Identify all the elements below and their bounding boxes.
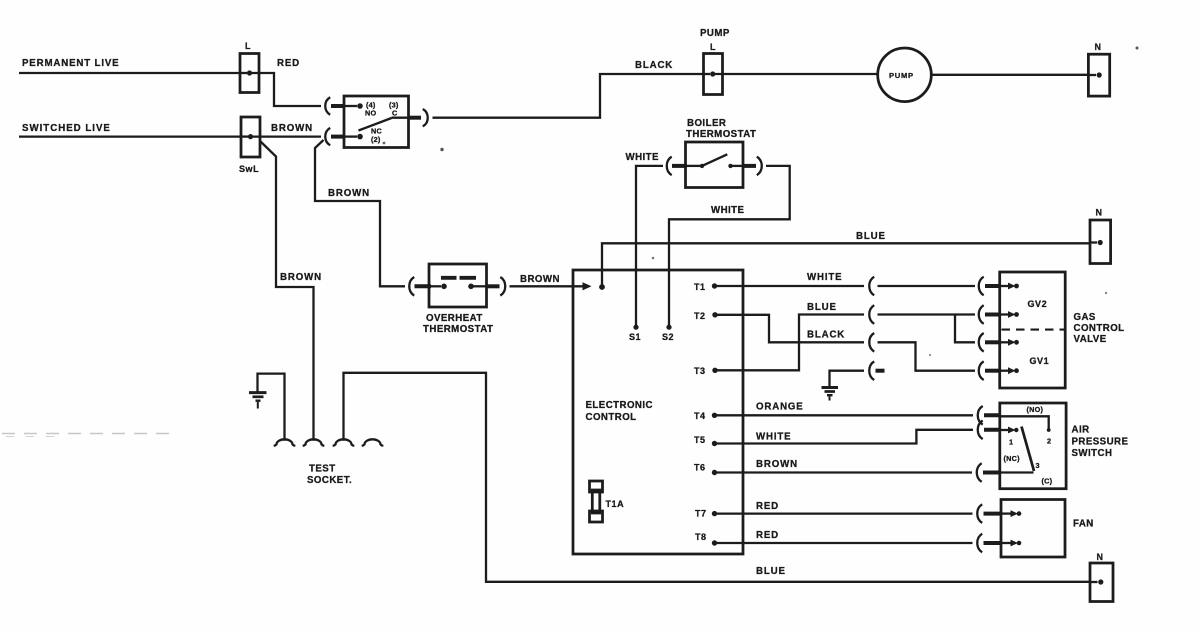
node RED label (T7) <box>756 501 779 512</box>
node BLACK label <box>635 60 673 71</box>
svg-text:1: 1 <box>1009 438 1013 447</box>
wire brown SwL to switch NC <box>251 135 322 137</box>
terminal T1 <box>694 282 717 292</box>
gas valve pin 2 <box>1001 311 1019 318</box>
wire T3 blue <box>715 315 864 371</box>
connector T8 <box>977 534 1001 553</box>
terminal PUMP L <box>700 28 730 95</box>
air switch pin 1 <box>1001 427 1019 434</box>
svg-text:THERMOSTAT: THERMOSTAT <box>686 129 756 140</box>
gas control valve box <box>1000 272 1065 388</box>
test socket pin 4 <box>362 439 384 446</box>
wire T4 orange <box>715 414 974 416</box>
svg-text:N: N <box>1095 42 1102 52</box>
wire blue test socket to N <box>344 373 1091 582</box>
terminal SwL <box>239 117 260 174</box>
connector T7 <box>977 504 1001 523</box>
connector T1 b <box>979 277 1000 296</box>
fan pin 2 <box>1001 540 1021 547</box>
wire permanent live <box>19 72 240 74</box>
svg-text:PERMANENT LIVE: PERMANENT LIVE <box>22 58 119 69</box>
svg-text:C: C <box>392 109 398 118</box>
node BLUE label (bottom) <box>756 566 786 577</box>
test socket pin 1 <box>274 439 296 446</box>
node RED label <box>277 58 300 69</box>
svg-text:CONTROL: CONTROL <box>586 412 637 423</box>
connector plug after C <box>423 109 428 126</box>
wire brown into electronic control <box>510 282 592 290</box>
svg-text:(2): (2) <box>371 135 381 144</box>
overheat thermostat <box>423 264 493 335</box>
wire blue to N <box>602 243 1090 287</box>
connector T2 a <box>869 333 975 371</box>
svg-text:BROWN: BROWN <box>328 188 370 199</box>
connector plug into switch NC <box>325 128 363 145</box>
connector T3 b <box>979 305 1000 324</box>
svg-text:BLACK: BLACK <box>807 330 845 341</box>
switch lever <box>359 118 392 131</box>
svg-text:WHITE: WHITE <box>626 152 660 163</box>
terminal T5 <box>694 435 717 446</box>
node BROWN label (mid) <box>328 188 370 199</box>
node BROWN label (into control) <box>520 274 560 285</box>
ground (gas valve row) <box>822 371 865 401</box>
svg-text:VALVE: VALVE <box>1074 334 1107 345</box>
connector T4 <box>978 406 1001 425</box>
svg-text:WHITE: WHITE <box>807 272 842 283</box>
node BROWN label (test socket) <box>280 272 322 283</box>
svg-text:NO: NO <box>365 109 376 118</box>
svg-text:S1: S1 <box>629 332 641 342</box>
wire T8 red <box>715 542 973 544</box>
svg-text:PRESSURE: PRESSURE <box>1072 436 1129 447</box>
wire brown from NC to overheat thermostat <box>315 140 405 286</box>
node AIR PRESSURE SWITCH label <box>1072 425 1129 460</box>
svg-text:PUMP: PUMP <box>700 28 730 39</box>
node BROWN label (T6) <box>756 459 798 470</box>
svg-text:(NO): (NO) <box>1027 405 1044 414</box>
test socket pin 2 <box>303 439 325 446</box>
connector plug after overheat thermostat <box>487 277 506 296</box>
wire pump L to pump <box>713 73 878 75</box>
node SWITCHED LIVE label <box>22 123 111 134</box>
node WHITE label (return) <box>711 205 745 216</box>
svg-text:GV1: GV1 <box>1030 356 1050 366</box>
svg-text:T2: T2 <box>694 311 706 321</box>
relay switch box <box>344 96 409 148</box>
terminal N (top right) <box>1088 42 1109 96</box>
svg-text:T7: T7 <box>695 509 707 519</box>
svg-text:CONTROL: CONTROL <box>1074 323 1125 334</box>
gas valve pin 1 <box>1001 283 1019 290</box>
boiler thermostat <box>686 118 757 188</box>
wire T7 red <box>715 512 973 514</box>
node junction blue/brown <box>599 284 605 290</box>
gas valve pin 3 <box>1001 339 1019 346</box>
fan box <box>1001 500 1094 558</box>
scan specks <box>383 47 1139 357</box>
svg-text:PUMP: PUMP <box>889 71 914 80</box>
connector plug into boiler thermostat <box>667 157 700 176</box>
wire white to boiler thermostat <box>633 166 663 330</box>
wire T2 black <box>715 315 864 343</box>
svg-text:T4: T4 <box>694 411 706 421</box>
svg-text:BROWN: BROWN <box>271 123 313 134</box>
svg-text:RED: RED <box>277 58 300 69</box>
wire test pin1 to earth <box>258 374 285 441</box>
connector T6 <box>977 463 1001 482</box>
wire T1 white <box>715 285 865 287</box>
terminal N (bottom) <box>1090 552 1113 602</box>
svg-text:THERMOSTAT: THERMOSTAT <box>423 324 493 335</box>
air switch C pin <box>1001 471 1034 473</box>
connector plug after boiler thermostat <box>743 157 762 176</box>
node TEST SOCKET label <box>307 464 352 487</box>
svg-text:SOCKET.: SOCKET. <box>307 475 352 486</box>
scan artifact dashes <box>2 434 172 437</box>
svg-text:OVERHEAT: OVERHEAT <box>426 313 483 324</box>
connector T3 a <box>869 305 975 324</box>
svg-text:BROWN: BROWN <box>756 459 798 470</box>
node S1 <box>629 332 641 342</box>
connector earth row <box>869 361 884 380</box>
fuse T1A <box>590 481 625 522</box>
electronic control box <box>573 270 743 554</box>
terminal T7 <box>695 509 717 519</box>
node GAS CONTROL VALVE label <box>1074 312 1125 345</box>
connector branch b <box>979 333 1000 352</box>
air switch NO pin <box>1001 416 1051 432</box>
svg-text:T6: T6 <box>694 463 706 473</box>
wire T5 white <box>715 430 974 444</box>
node WHITE label (T1) <box>807 272 842 283</box>
pump motor circle <box>878 48 932 102</box>
wire T6 brown <box>715 471 973 473</box>
svg-text:T3: T3 <box>694 366 706 376</box>
wire C output <box>392 117 422 119</box>
air pressure switch box <box>1000 403 1066 489</box>
svg-text:GV2: GV2 <box>1028 299 1048 309</box>
svg-text:FAN: FAN <box>1073 519 1094 530</box>
svg-text:T8: T8 <box>695 532 707 542</box>
terminal N (second) <box>1090 208 1111 264</box>
svg-text:2: 2 <box>1047 437 1051 446</box>
svg-text:RED: RED <box>756 530 779 541</box>
svg-text:BLACK: BLACK <box>635 60 673 71</box>
svg-text:T1A: T1A <box>606 499 625 509</box>
wire pump to N <box>931 74 1088 76</box>
svg-text:TEST: TEST <box>309 464 336 475</box>
node ORANGE label <box>756 402 804 413</box>
svg-text:(NC): (NC) <box>1004 454 1021 463</box>
svg-text:WHITE: WHITE <box>711 205 745 216</box>
air switch lever <box>1022 427 1035 472</box>
svg-text:BROWN: BROWN <box>280 272 322 283</box>
node BLACK label (T2) <box>807 330 845 341</box>
node WHITE label (T5) <box>756 432 791 443</box>
svg-text:SWITCHED LIVE: SWITCHED LIVE <box>22 123 111 134</box>
svg-text:BROWN: BROWN <box>520 274 560 285</box>
node RED label (T8) <box>756 530 779 541</box>
svg-text:BLUE: BLUE <box>856 231 886 242</box>
gas valve pin 4 <box>1001 367 1019 374</box>
wire white return to S2 <box>666 166 789 330</box>
svg-text:WHITE: WHITE <box>756 432 791 443</box>
wire blue branch to third valve pin <box>955 315 975 343</box>
connector plug into overheat thermostat <box>409 277 441 296</box>
terminal L <box>240 41 259 93</box>
svg-text:T5: T5 <box>694 435 706 445</box>
node BLUE label (T3) <box>807 302 837 313</box>
svg-text:ELECTRONIC: ELECTRONIC <box>586 400 653 411</box>
test socket pin 3 <box>333 439 355 446</box>
connector T5 <box>978 421 1001 440</box>
svg-text:ORANGE: ORANGE <box>756 402 804 413</box>
svg-text:L: L <box>245 41 251 51</box>
svg-text:N: N <box>1096 208 1103 218</box>
svg-text:(C): (C) <box>1042 477 1053 486</box>
node BLUE label (top) <box>856 231 886 242</box>
connector T2 b <box>979 361 1000 380</box>
svg-text:S2: S2 <box>662 332 674 342</box>
svg-text:BOILER: BOILER <box>687 118 726 129</box>
terminal T6 <box>694 463 717 476</box>
ground (test socket) <box>249 393 267 409</box>
node PERMANENT LIVE label <box>22 58 119 69</box>
wire C to pump terminal <box>433 74 704 118</box>
svg-text:N: N <box>1097 552 1104 562</box>
fan pin 1 <box>1001 510 1021 517</box>
node S2 <box>662 332 674 342</box>
svg-text:AIR: AIR <box>1072 425 1090 436</box>
svg-text:L: L <box>710 42 716 52</box>
terminal T3 <box>694 366 718 376</box>
svg-text:BLUE: BLUE <box>807 302 837 313</box>
terminal T8 <box>695 532 717 546</box>
terminal T2 <box>694 311 718 321</box>
terminal T4 <box>694 411 717 421</box>
svg-text:T1: T1 <box>694 282 706 292</box>
wire red from L to switch NO <box>250 73 322 106</box>
connector T1 a <box>869 277 975 296</box>
node BROWN label (SwL) <box>271 123 313 134</box>
connector plug into switch NO <box>325 97 363 114</box>
node WHITE label (boiler stat left) <box>626 152 660 163</box>
svg-text:BLUE: BLUE <box>756 566 786 577</box>
svg-text:SwL: SwL <box>239 164 259 174</box>
svg-text:SWITCH: SWITCH <box>1072 448 1113 459</box>
svg-text:3: 3 <box>1036 461 1040 470</box>
svg-text:GAS: GAS <box>1074 312 1096 323</box>
svg-text:RED: RED <box>756 501 779 512</box>
wire brown SwL down to test socket <box>260 141 314 441</box>
wire switched live <box>19 135 241 137</box>
